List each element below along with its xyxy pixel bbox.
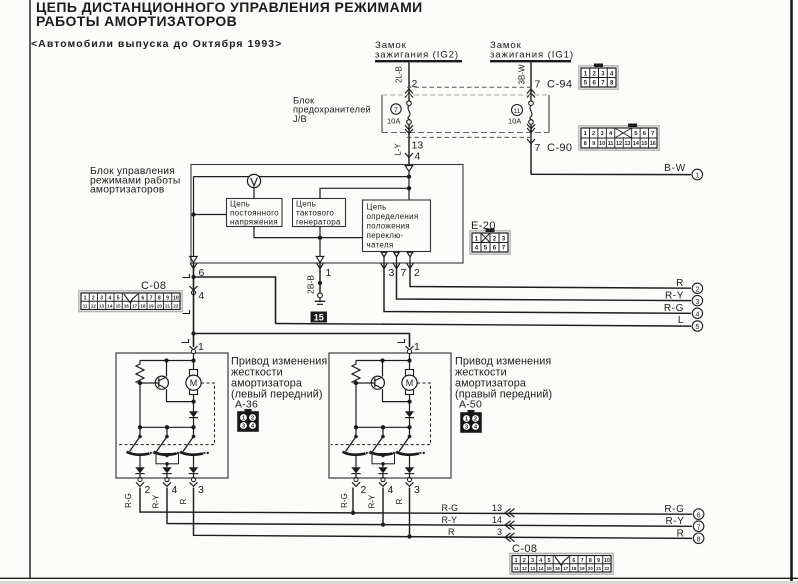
svg-text:3: 3 bbox=[414, 484, 420, 496]
svg-text:M: M bbox=[406, 378, 414, 388]
svg-text:3: 3 bbox=[198, 484, 204, 496]
svg-text:1: 1 bbox=[326, 267, 332, 279]
ground rail to pin 1 bbox=[319, 238, 321, 256]
svg-text:3: 3 bbox=[389, 267, 395, 279]
svg-text:18: 18 bbox=[571, 566, 577, 571]
pin 4 entry triangle bbox=[405, 166, 413, 172]
internal bottom link bbox=[254, 227, 363, 238]
diode D1 bbox=[193, 402, 195, 412]
inner box: constant voltage circuit bbox=[227, 199, 283, 227]
svg-text:R: R bbox=[179, 498, 188, 504]
svg-text:9: 9 bbox=[592, 141, 595, 147]
wire L bbox=[276, 324, 692, 327]
svg-text:4: 4 bbox=[199, 290, 205, 302]
connector C-08 pin grid (bottom) bbox=[510, 553, 613, 574]
actuator box bbox=[329, 353, 451, 478]
svg-text:C-94: C-94 bbox=[547, 79, 572, 91]
wire inside: pin4 vertical bbox=[408, 172, 410, 200]
svg-text:7: 7 bbox=[535, 79, 541, 91]
svg-text:7: 7 bbox=[401, 267, 407, 279]
internal clock line bbox=[320, 188, 409, 199]
svg-text:A-50: A-50 bbox=[459, 399, 482, 411]
svg-text:14: 14 bbox=[107, 303, 113, 308]
svg-text:2L-B: 2L-B bbox=[395, 66, 404, 83]
ground point 15 bbox=[311, 312, 328, 323]
svg-text:4: 4 bbox=[475, 245, 479, 252]
node: pin6 branch bbox=[191, 275, 195, 279]
svg-text:4: 4 bbox=[172, 484, 178, 496]
svg-text:R-G: R-G bbox=[664, 504, 684, 515]
svg-text:13: 13 bbox=[624, 141, 630, 147]
svg-text:переклю-: переклю- bbox=[367, 231, 404, 240]
svg-text:12: 12 bbox=[616, 141, 622, 147]
svg-text:R-G: R-G bbox=[124, 493, 133, 508]
svg-text:определения: определения bbox=[367, 212, 419, 221]
svg-text:2B-B: 2B-B bbox=[306, 275, 316, 294]
wire R-Y (pin7) bbox=[397, 263, 692, 301]
connector C-90 pin grid bbox=[579, 126, 659, 150]
svg-text:10A: 10A bbox=[387, 117, 400, 126]
connector C-94 pin grid bbox=[579, 66, 618, 89]
svg-text:1: 1 bbox=[695, 173, 699, 180]
svg-text:1: 1 bbox=[515, 558, 518, 564]
output diodes bbox=[139, 455, 141, 468]
transistor Q bbox=[155, 376, 168, 389]
switch common rail bbox=[140, 426, 194, 428]
wire to right actuator pin1 bbox=[194, 334, 410, 348]
svg-text:5: 5 bbox=[695, 324, 699, 331]
internal top rail bbox=[356, 360, 410, 362]
svg-text:R-G: R-G bbox=[664, 303, 684, 314]
svg-text:2: 2 bbox=[251, 416, 254, 422]
svg-text:9: 9 bbox=[597, 558, 600, 564]
svg-text:1: 1 bbox=[84, 296, 87, 302]
svg-text:6: 6 bbox=[141, 296, 144, 302]
svg-text:12: 12 bbox=[522, 566, 528, 571]
svg-text:R: R bbox=[676, 278, 684, 289]
wire 3B-W from IG1 bbox=[530, 62, 532, 100]
svg-text:14: 14 bbox=[538, 566, 544, 571]
motor M1 bbox=[190, 370, 198, 395]
svg-text:Цепь: Цепь bbox=[367, 203, 387, 212]
svg-text:2: 2 bbox=[92, 296, 95, 302]
svg-text:8: 8 bbox=[589, 558, 592, 564]
pin 6 of control unit bbox=[190, 263, 197, 268]
svg-text:тактового: тактового bbox=[296, 209, 334, 218]
svg-text:Цепь: Цепь bbox=[296, 200, 316, 209]
svg-text:5: 5 bbox=[117, 296, 120, 302]
transistor emitter link bbox=[167, 389, 194, 402]
svg-text:10: 10 bbox=[173, 296, 179, 302]
svg-text:R-G: R-G bbox=[442, 503, 459, 513]
selector switch contacts bbox=[355, 427, 357, 436]
svg-text:11: 11 bbox=[83, 303, 88, 308]
svg-text:1: 1 bbox=[465, 417, 468, 423]
output diodes bbox=[355, 455, 357, 468]
svg-text:чателя: чателя bbox=[367, 241, 394, 250]
wire R-G (pin3) bbox=[384, 263, 691, 313]
hook mark bbox=[182, 339, 189, 343]
motor M1 bbox=[406, 370, 414, 395]
output pins 2,4,3 bbox=[354, 477, 358, 481]
svg-text:4: 4 bbox=[695, 312, 699, 319]
wire B-W bbox=[531, 173, 691, 175]
node at supply line bbox=[407, 174, 411, 178]
svg-text:8: 8 bbox=[697, 537, 701, 544]
svg-text:R: R bbox=[677, 528, 685, 539]
svg-text:10: 10 bbox=[604, 558, 610, 564]
terminal 8 bbox=[693, 533, 704, 544]
inline connector C-08 pin 4 bbox=[190, 286, 198, 290]
mechanical link (dashed) bbox=[118, 383, 215, 445]
svg-text:6: 6 bbox=[697, 512, 701, 519]
svg-text:15: 15 bbox=[641, 141, 647, 147]
svg-text:9: 9 bbox=[166, 296, 169, 302]
fuse 7 (10A) bbox=[391, 104, 401, 114]
wire R-Y bus bbox=[167, 488, 692, 527]
svg-text:11: 11 bbox=[608, 141, 614, 147]
svg-text:2: 2 bbox=[695, 287, 699, 294]
svg-text:7: 7 bbox=[651, 131, 654, 137]
wire branch to L output bbox=[194, 277, 276, 324]
diode D1 bbox=[409, 402, 411, 412]
wiper detent box bbox=[372, 454, 395, 464]
svg-text:15: 15 bbox=[116, 303, 122, 308]
svg-text:R-Y: R-Y bbox=[665, 516, 684, 527]
svg-text:10: 10 bbox=[599, 141, 605, 147]
connector line C-90 (dashed) bbox=[407, 136, 533, 138]
svg-text:2: 2 bbox=[474, 417, 477, 423]
svg-text:6: 6 bbox=[572, 558, 575, 564]
svg-text:16: 16 bbox=[555, 566, 561, 571]
right actuator pin2 drop bbox=[352, 488, 354, 513]
svg-text:21: 21 bbox=[596, 566, 602, 571]
svg-text:22: 22 bbox=[173, 303, 179, 308]
svg-text:постоянного: постоянного bbox=[230, 209, 279, 218]
connector chevrons C-94 bbox=[405, 89, 413, 94]
svg-text:16: 16 bbox=[124, 303, 130, 308]
svg-text:R-G: R-G bbox=[340, 493, 349, 508]
svg-text:R-Y: R-Y bbox=[442, 515, 458, 525]
output pins 2,4,3 bbox=[138, 477, 142, 481]
svg-text:4: 4 bbox=[108, 296, 111, 302]
diode symbol (circle-V) U1 bbox=[247, 174, 260, 187]
svg-text:3: 3 bbox=[242, 424, 245, 430]
svg-text:2: 2 bbox=[592, 131, 595, 137]
svg-text:13: 13 bbox=[99, 303, 105, 308]
terminal 7 bbox=[693, 521, 704, 532]
svg-text:10A: 10A bbox=[508, 117, 521, 126]
svg-text:2: 2 bbox=[523, 558, 526, 564]
svg-text:4: 4 bbox=[415, 151, 421, 163]
svg-text:4: 4 bbox=[388, 484, 394, 496]
svg-text:M: M bbox=[190, 378, 198, 388]
svg-text:амортизаторов: амортизаторов bbox=[90, 185, 165, 196]
svg-text:13: 13 bbox=[530, 566, 536, 571]
pin 7 of control unit bbox=[393, 263, 400, 268]
ground symbol bbox=[315, 300, 325, 302]
actuator box bbox=[116, 353, 228, 478]
terminal 4 bbox=[692, 308, 702, 318]
terminal 5 bbox=[692, 321, 702, 331]
pin 1 entry bbox=[406, 346, 414, 350]
svg-text:3: 3 bbox=[695, 299, 699, 306]
svg-text:2: 2 bbox=[414, 267, 420, 279]
svg-text:20: 20 bbox=[588, 566, 594, 571]
wire from fuse 11 bbox=[530, 124, 532, 174]
hook mark C-08 bbox=[183, 274, 190, 278]
svg-text:3: 3 bbox=[100, 296, 103, 302]
transistor emitter link bbox=[383, 389, 410, 402]
node: actuator feed split bbox=[191, 331, 195, 335]
svg-text:зажигания (IG1): зажигания (IG1) bbox=[490, 49, 574, 60]
pin 1 (ground) of control unit bbox=[317, 263, 324, 268]
wire R-G bus bbox=[140, 488, 692, 515]
svg-text:17: 17 bbox=[132, 303, 138, 308]
svg-text:3: 3 bbox=[465, 425, 468, 431]
svg-text:20: 20 bbox=[157, 303, 163, 308]
svg-text:2: 2 bbox=[145, 484, 151, 496]
svg-text:7: 7 bbox=[697, 524, 701, 531]
svg-text:13: 13 bbox=[492, 503, 502, 513]
svg-text:11: 11 bbox=[514, 108, 521, 115]
switch common rail bbox=[356, 426, 410, 428]
svg-text:3: 3 bbox=[502, 235, 506, 242]
pin 1 entry bbox=[190, 346, 198, 350]
wire 2L-B from IG2 bbox=[408, 62, 410, 100]
internal supply rail bbox=[194, 176, 410, 178]
triangle at pin 6 bbox=[190, 256, 198, 262]
selector switch contacts bbox=[139, 427, 141, 436]
pin 3 of control unit bbox=[381, 263, 388, 268]
svg-text:<Автомобили выпуска до Октября: <Автомобили выпуска до Октября 1993> bbox=[31, 38, 282, 50]
mechanical link (dashed) bbox=[331, 383, 431, 445]
connector line C-94 (dashed) bbox=[407, 86, 533, 88]
svg-text:7: 7 bbox=[150, 296, 153, 302]
connector C-08 pin grid bbox=[79, 291, 182, 312]
svg-text:19: 19 bbox=[580, 566, 586, 571]
resistor bbox=[352, 361, 360, 385]
svg-text:B-W: B-W bbox=[664, 163, 686, 174]
svg-text:2: 2 bbox=[493, 235, 497, 242]
connector E-20 pin grid bbox=[470, 231, 510, 254]
pins of detection circuit bbox=[381, 252, 387, 257]
svg-text:7: 7 bbox=[535, 142, 541, 154]
svg-text:J/B: J/B bbox=[293, 114, 307, 124]
resistor bbox=[136, 361, 144, 385]
pin 2 of control unit bbox=[407, 263, 414, 268]
svg-text:Цепь: Цепь bbox=[230, 200, 250, 209]
wire R (pin2) bbox=[410, 263, 691, 288]
svg-text:R-Y: R-Y bbox=[665, 290, 684, 301]
svg-text:12: 12 bbox=[91, 303, 97, 308]
svg-text:7: 7 bbox=[581, 558, 584, 564]
terminal 6 bbox=[693, 509, 704, 520]
svg-text:2: 2 bbox=[412, 78, 418, 90]
terminal 3 bbox=[692, 295, 702, 305]
hook mark bbox=[398, 339, 405, 343]
svg-text:5: 5 bbox=[484, 245, 488, 252]
fuse box J/B outline bbox=[381, 95, 383, 133]
svg-text:A-36: A-36 bbox=[235, 399, 258, 411]
svg-text:R: R bbox=[395, 498, 404, 504]
svg-text:L-Y: L-Y bbox=[394, 143, 403, 156]
node at clock line bbox=[407, 186, 411, 190]
svg-text:положения: положения bbox=[367, 222, 410, 231]
inner box: clock generator circuit bbox=[293, 199, 346, 227]
control unit box bbox=[191, 165, 463, 264]
svg-text:4: 4 bbox=[539, 558, 542, 564]
svg-text:R-Y: R-Y bbox=[368, 494, 377, 508]
svg-text:1: 1 bbox=[242, 416, 245, 422]
svg-text:1: 1 bbox=[475, 235, 479, 242]
svg-text:R: R bbox=[448, 527, 455, 537]
svg-text:3: 3 bbox=[497, 527, 502, 537]
svg-text:17: 17 bbox=[563, 566, 569, 571]
terminal 2 bbox=[692, 283, 702, 293]
svg-text:8: 8 bbox=[584, 141, 587, 147]
svg-text:7: 7 bbox=[502, 245, 506, 252]
svg-text:18: 18 bbox=[140, 303, 146, 308]
svg-text:19: 19 bbox=[149, 303, 155, 308]
svg-text:11: 11 bbox=[514, 566, 519, 571]
svg-text:16: 16 bbox=[650, 141, 656, 147]
ground connector bbox=[318, 293, 323, 298]
svg-text:5: 5 bbox=[548, 558, 551, 564]
fuse 11 (10A) bbox=[512, 105, 523, 116]
svg-text:напряжения: напряжения bbox=[230, 218, 278, 227]
connector A-36 bbox=[245, 409, 252, 412]
svg-text:генератора: генератора bbox=[296, 218, 341, 227]
hook mark bbox=[183, 310, 190, 314]
svg-text:3B-W: 3B-W bbox=[518, 64, 527, 84]
svg-text:РАБОТЫ АМОРТИЗАТОРОВ: РАБОТЫ АМОРТИЗАТОРОВ bbox=[36, 13, 237, 29]
wire R bus bbox=[194, 488, 693, 539]
svg-text:3: 3 bbox=[531, 558, 534, 564]
svg-text:8: 8 bbox=[158, 296, 161, 302]
svg-text:22: 22 bbox=[604, 566, 610, 571]
wire L-Y fuse7 to control unit bbox=[408, 124, 410, 165]
svg-text:15: 15 bbox=[314, 312, 324, 322]
branch to constant-voltage circuit bbox=[194, 214, 227, 216]
svg-text:2: 2 bbox=[361, 484, 367, 496]
svg-text:C-90: C-90 bbox=[547, 142, 572, 154]
svg-text:14: 14 bbox=[633, 141, 639, 147]
svg-text:зажигания (IG2): зажигания (IG2) bbox=[375, 49, 459, 60]
svg-text:14: 14 bbox=[492, 515, 502, 525]
svg-text:7: 7 bbox=[394, 107, 398, 114]
svg-text:L: L bbox=[678, 315, 684, 326]
left internal rail (pin 6) bbox=[193, 177, 195, 256]
transistor Q bbox=[371, 376, 384, 389]
wiper detent box bbox=[156, 454, 179, 464]
terminal 1 bbox=[692, 169, 703, 180]
svg-text:1: 1 bbox=[414, 341, 420, 353]
internal top rail bbox=[140, 360, 194, 362]
inner box: switch position detection circuit bbox=[363, 200, 431, 252]
svg-text:6: 6 bbox=[493, 245, 497, 252]
connector A-50 bbox=[468, 410, 475, 413]
svg-text:21: 21 bbox=[165, 303, 171, 308]
connector pass-through chevrons C-08 bbox=[505, 509, 511, 518]
svg-text:1: 1 bbox=[198, 341, 204, 353]
svg-text:R-Y: R-Y bbox=[152, 494, 161, 508]
svg-text:15: 15 bbox=[547, 566, 553, 571]
